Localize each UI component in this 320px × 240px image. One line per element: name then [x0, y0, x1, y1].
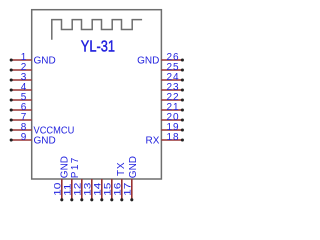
- svg-text:12: 12: [73, 183, 83, 196]
- svg-text:14: 14: [93, 183, 103, 196]
- svg-text:RX: RX: [145, 135, 159, 146]
- pin 23: [161, 82, 184, 93]
- svg-text:18: 18: [167, 132, 179, 143]
- pin 11 P17: [63, 157, 81, 201]
- svg-text:17: 17: [123, 183, 133, 196]
- pin 12: [73, 179, 84, 201]
- pin 2: [10, 62, 32, 73]
- pin 14: [93, 179, 104, 201]
- svg-text:GND: GND: [137, 55, 159, 66]
- pin 13: [83, 179, 94, 201]
- svg-text:16: 16: [113, 183, 123, 196]
- svg-text:GND: GND: [34, 55, 56, 66]
- pin 26 GND: [137, 52, 184, 67]
- pin 16 TX: [113, 162, 127, 201]
- pin 24: [161, 72, 184, 83]
- pin 20: [161, 112, 184, 123]
- pin 5: [10, 92, 32, 103]
- svg-text:13: 13: [83, 183, 93, 196]
- svg-text:9: 9: [21, 132, 27, 143]
- svg-text:TX: TX: [116, 162, 127, 176]
- pin 3: [10, 72, 32, 83]
- pin 21: [161, 102, 184, 113]
- pin 18 RX: [145, 132, 183, 147]
- module body U1 YL-31: [32, 10, 162, 179]
- pin 1 GND: [10, 52, 56, 67]
- pin 19: [161, 122, 184, 133]
- pin 9 GND: [10, 132, 56, 147]
- pin 10 GND: [53, 156, 71, 201]
- svg-text:P17: P17: [70, 157, 81, 178]
- pin 7: [10, 112, 32, 123]
- pin 15: [103, 179, 114, 201]
- svg-text:GND: GND: [34, 135, 56, 146]
- pin 22: [161, 92, 184, 103]
- pin 25: [161, 62, 184, 73]
- pin 4: [10, 82, 32, 93]
- pin 6: [10, 102, 32, 113]
- svg-text:15: 15: [103, 183, 113, 196]
- antenna meander: [52, 20, 142, 40]
- svg-text:11: 11: [63, 183, 73, 195]
- svg-text:GND: GND: [128, 156, 139, 178]
- svg-text:10: 10: [53, 183, 63, 196]
- svg-text:YL-31: YL-31: [81, 38, 115, 55]
- pin 8 VCCMCU: [10, 122, 75, 137]
- pin 17 GND: [123, 156, 139, 201]
